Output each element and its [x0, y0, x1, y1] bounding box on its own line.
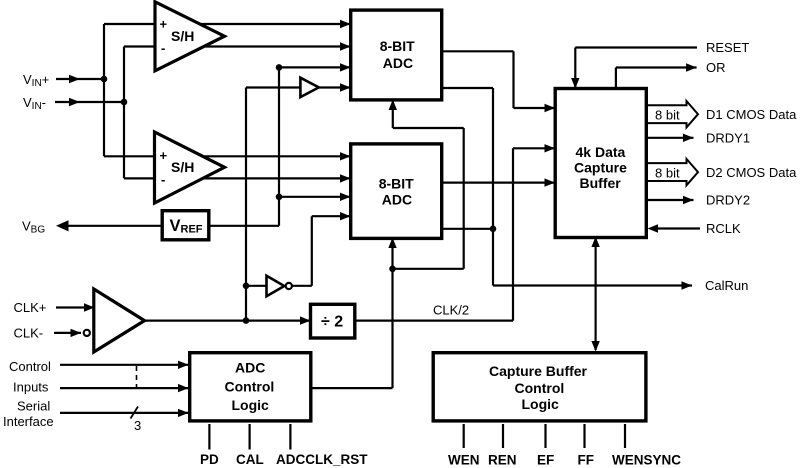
wire inverter input: [246, 285, 268, 287]
capture buffer to control logic double arrow: [591, 237, 599, 352]
svg-text:8 bit: 8 bit: [655, 165, 680, 180]
svg-text:ADC: ADC: [383, 55, 413, 71]
svg-text:REF: REF: [181, 224, 203, 236]
svg-text:OR: OR: [706, 60, 726, 75]
D1 CMOS Data 8-bit bus arrow: [647, 101, 698, 127]
svg-text:D2 CMOS Data: D2 CMOS Data: [706, 165, 797, 180]
svg-text:-: -: [161, 172, 165, 187]
wire CLK+ input: [56, 303, 95, 311]
svg-text:RESET: RESET: [706, 40, 749, 55]
clock buffer for ADC1: [300, 78, 318, 97]
wire S/H1 plus line to ADC1 input 1: [104, 20, 351, 28]
wire DRDY2 output: [647, 196, 694, 204]
node inverter tap junction: [243, 283, 250, 290]
wire serial interface input: [60, 409, 189, 417]
node CLK output junction: [243, 317, 250, 324]
node CalRun junction: [490, 226, 497, 233]
S/H amplifier 1: [155, 2, 225, 71]
wire CLK buffer output to divide-by-2: [144, 316, 311, 324]
wire ADC2 output to capture buffer input 3: [442, 178, 555, 186]
svg-text:ADC: ADC: [235, 360, 265, 376]
svg-text:-: -: [161, 41, 165, 56]
svg-text:8-BIT: 8-BIT: [380, 38, 415, 54]
wire control input 2: [60, 384, 189, 392]
S/H amplifier 2: [155, 132, 225, 203]
svg-text:CAL: CAL: [236, 452, 264, 467]
EF stub: [544, 424, 546, 448]
8-bit ADC 1: [351, 10, 442, 100]
svg-text:PD: PD: [200, 452, 219, 467]
wire VBG output: [56, 220, 161, 231]
8-bit ADC 2: [351, 144, 442, 239]
svg-text:S/H: S/H: [171, 28, 194, 44]
svg-text:WENSYNC: WENSYNC: [612, 453, 681, 468]
wire ADC control to ADC2 bottom: [313, 238, 397, 389]
svg-text:FF: FF: [578, 453, 595, 468]
ADCCLK_RST stub: [289, 424, 291, 450]
svg-text:CLK-: CLK-: [14, 326, 44, 341]
svg-text:÷ 2: ÷ 2: [321, 314, 343, 331]
svg-text:+: +: [160, 148, 168, 163]
wire clock buffer feed: [246, 86, 303, 88]
svg-text:Logic: Logic: [522, 396, 560, 412]
wire clock buffer output to ADC1 input 4: [319, 83, 351, 91]
svg-text:EF: EF: [537, 453, 554, 468]
ellipsis dashed line between control inputs: [136, 366, 138, 388]
4k data capture buffer block: [555, 89, 646, 238]
svg-text:Control: Control: [225, 379, 275, 395]
svg-text:DRDY2: DRDY2: [706, 193, 750, 208]
wire S/H2 minus line to ADC2 input 2: [124, 174, 351, 182]
wire VIN+ riser: [103, 24, 105, 156]
wire OR output: [616, 63, 697, 88]
wire VREF riser: [210, 67, 279, 225]
node VIN- junction: [121, 99, 128, 106]
wire clock riser: [245, 88, 247, 321]
svg-text:8-BIT: 8-BIT: [379, 175, 414, 191]
svg-text:ADC: ADC: [382, 191, 412, 207]
wire RCLK input: [648, 224, 701, 232]
label Serial Interface: [3, 399, 54, 430]
capture buffer control logic block: [433, 353, 646, 421]
node VIN+ junction: [101, 76, 108, 83]
svg-text:8 bit: 8 bit: [655, 108, 680, 123]
svg-text:V: V: [170, 217, 181, 235]
CLK- inversion bubble: [84, 330, 90, 336]
svg-text:REN: REN: [488, 453, 517, 468]
FF stub: [583, 424, 585, 448]
svg-text:RCLK: RCLK: [706, 221, 741, 236]
svg-text:Logic: Logic: [232, 397, 270, 413]
bus width slash with label 3: [131, 407, 142, 434]
wire CLK- input: [54, 329, 81, 337]
node VREF to ADC2 junction: [276, 194, 283, 201]
wire VIN- riser: [123, 47, 125, 179]
wire VREF to ADC1 input 3: [279, 63, 351, 71]
WENSYNC stub: [624, 424, 626, 448]
svg-text:Control: Control: [515, 380, 565, 396]
wire CalRun output: [493, 229, 692, 290]
wire ADC1 output to capture buffer input 1: [442, 51, 555, 112]
svg-text:WEN: WEN: [448, 453, 480, 468]
svg-text:DRDY1: DRDY1: [706, 131, 750, 146]
CLK input buffer: [94, 289, 145, 352]
svg-text:Capture Buffer: Capture Buffer: [489, 363, 588, 379]
wire S/H2 plus line to ADC2 input 1: [104, 152, 351, 160]
label Control Inputs: [9, 359, 51, 395]
wire S/H1 minus line to ADC1 input 2: [124, 42, 351, 50]
svg-text:D1 CMOS Data: D1 CMOS Data: [706, 107, 797, 122]
svg-text:Capture: Capture: [574, 160, 627, 176]
REN stub: [502, 424, 504, 448]
wire ADC2 lower output: [442, 228, 493, 230]
svg-text:Control: Control: [9, 359, 51, 374]
svg-text:Inputs: Inputs: [13, 380, 49, 395]
wire DRDY1 output: [647, 134, 694, 142]
svg-text:CalRun: CalRun: [705, 278, 748, 293]
svg-text:3: 3: [134, 418, 141, 433]
CAL stub: [249, 424, 251, 450]
wire RESET input: [571, 48, 697, 89]
wire inverter output to ADC2 input 4: [292, 212, 351, 286]
wire CLK/2 to capture buffer clock input: [356, 144, 555, 321]
WEN stub: [463, 424, 465, 448]
ADC control logic block: [190, 353, 311, 421]
wire ADC control to ADC1 bottom: [389, 100, 464, 269]
svg-text:CLK/2: CLK/2: [433, 303, 469, 318]
wire VREF to ADC2 input 3: [279, 193, 351, 201]
node VREF to ADC1 junction: [276, 64, 283, 71]
wire VIN+ input: [56, 75, 104, 83]
clock inverter for ADC2: [267, 276, 292, 297]
wire ADC1 lower output to CalRun node: [442, 88, 493, 229]
divide-by-2 block: [311, 304, 355, 338]
wire VIN- input: [55, 98, 124, 106]
svg-text:S/H: S/H: [171, 159, 194, 175]
svg-text:+: +: [160, 17, 168, 32]
svg-text:Serial: Serial: [17, 399, 50, 414]
svg-text:Interface: Interface: [3, 414, 54, 429]
wire control input 1: [60, 361, 189, 369]
node ADC control feed junction: [389, 266, 396, 273]
svg-text:Buffer: Buffer: [580, 175, 622, 191]
svg-text:4k Data: 4k Data: [576, 144, 626, 160]
D2 CMOS Data 8-bit bus arrow: [647, 159, 698, 185]
PD stub: [208, 424, 210, 450]
VREF block: [162, 211, 209, 240]
svg-text:CLK+: CLK+: [14, 300, 47, 315]
svg-text:ADCCLK_RST: ADCCLK_RST: [276, 452, 368, 467]
